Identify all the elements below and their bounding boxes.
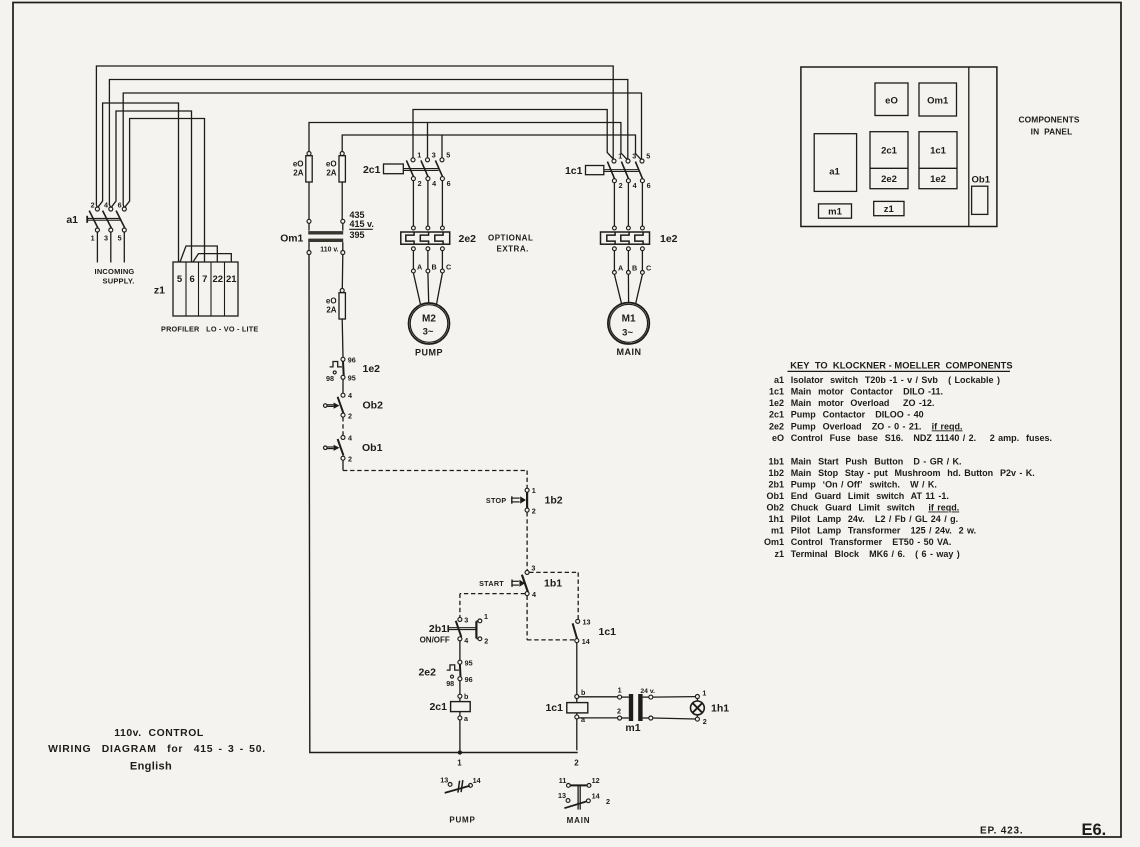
svg-text:13: 13	[583, 617, 591, 626]
motor M1 (main)	[608, 303, 649, 344]
svg-text:2: 2	[484, 637, 488, 646]
label PUMP	[415, 347, 443, 357]
fuse eO (left, 2A)	[293, 152, 312, 220]
label Ob2	[363, 399, 384, 411]
label 1h1	[711, 703, 729, 715]
svg-text:English: English	[130, 760, 172, 772]
svg-text:INCOMING: INCOMING	[95, 267, 135, 276]
svg-text:1c1: 1c1	[599, 626, 617, 638]
label 2e2 (aux)	[418, 666, 436, 678]
label 1c1 (power)	[565, 165, 583, 177]
dashed wire 1b1-4 to 1c1-14	[527, 596, 575, 640]
svg-text:1b2: 1b2	[545, 494, 563, 506]
svg-text:415 v.: 415 v.	[350, 219, 374, 229]
svg-text:b: b	[581, 688, 586, 697]
label 2 (main aux)	[606, 797, 610, 806]
svg-text:B: B	[432, 263, 437, 272]
overload relay 1e2	[601, 226, 650, 251]
svg-text:Ob2: Ob2	[766, 503, 784, 513]
svg-text:EP. 423.: EP. 423.	[980, 825, 1023, 836]
key entry 2b1	[768, 480, 936, 490]
svg-text:4: 4	[432, 179, 436, 188]
svg-text:1c1: 1c1	[769, 387, 784, 397]
label 1e2 (aux)	[363, 363, 381, 375]
wire to 2c1 coil	[459, 681, 461, 695]
svg-text:5: 5	[118, 234, 122, 243]
svg-text:1c1: 1c1	[565, 165, 583, 177]
key entry a1	[774, 375, 1000, 385]
svg-text:6: 6	[118, 200, 122, 209]
key entry 1e2	[769, 398, 934, 408]
svg-text:5: 5	[446, 150, 450, 159]
svg-text:3~: 3~	[622, 328, 633, 339]
svg-text:Main motor Contactor DILO: Main motor Contactor DILO -11.	[791, 387, 943, 397]
label PUMP (aux)	[449, 815, 475, 824]
svg-text:5: 5	[177, 274, 183, 285]
limit switch Ob2	[324, 391, 353, 420]
svg-text:1c1: 1c1	[545, 702, 563, 714]
svg-text:13: 13	[558, 791, 566, 800]
svg-text:2: 2	[703, 717, 707, 726]
wire Ob1-2 down	[342, 460, 344, 470]
svg-text:z1: z1	[774, 549, 784, 559]
svg-text:Ob1: Ob1	[972, 175, 991, 186]
svg-text:Pump Overload ZO - 0 - 21.: Pump Overload ZO - 0 - 21. if reqd.	[791, 421, 963, 431]
svg-text:1: 1	[417, 150, 421, 159]
svg-text:24 v.: 24 v.	[640, 688, 655, 695]
svg-text:Om1: Om1	[764, 537, 784, 547]
svg-text:Main motor Overload ZO -1: Main motor Overload ZO -12.	[791, 398, 935, 408]
svg-text:3: 3	[432, 150, 436, 159]
wire link 2c1-1 to 1c1-1	[413, 110, 613, 160]
wire link z1-6 to z1-21	[193, 254, 231, 262]
wires to motor M2	[413, 273, 442, 305]
svg-text:110 v.: 110 v.	[320, 246, 338, 253]
svg-text:a1: a1	[66, 214, 78, 226]
label z1	[154, 285, 165, 297]
svg-text:2: 2	[574, 759, 579, 768]
svg-text:5: 5	[646, 152, 650, 161]
svg-text:14: 14	[592, 792, 600, 801]
svg-text:1b1: 1b1	[544, 578, 562, 590]
label MAIN (aux)	[567, 816, 591, 825]
limit switch Ob1	[324, 433, 353, 463]
svg-text:1: 1	[532, 486, 536, 495]
svg-text:Main Stop Stay - put Mushro: Main Stop Stay - put Mushroom hd. Button…	[791, 468, 1035, 478]
svg-text:eO: eO	[293, 160, 304, 169]
label 1b1	[544, 578, 562, 590]
svg-text:2e2: 2e2	[418, 666, 436, 678]
label MAIN	[617, 347, 642, 357]
key entry 1b2	[768, 468, 1034, 478]
overload relay 2e2	[401, 226, 450, 251]
key entry 1c1	[769, 387, 943, 397]
svg-text:2c1: 2c1	[429, 701, 447, 713]
key entry 2c1	[769, 410, 924, 420]
svg-text:2e2: 2e2	[881, 174, 897, 185]
svg-text:2e2: 2e2	[769, 421, 784, 431]
svg-text:2: 2	[606, 797, 610, 806]
key entry 2e2	[769, 421, 963, 431]
svg-text:Control Fuse base S16. ND: Control Fuse base S16. NDZ 11140 / 2. 2 …	[791, 433, 1052, 443]
svg-text:4: 4	[633, 181, 637, 190]
svg-text:1: 1	[484, 612, 488, 621]
contactor 1c1 main contacts	[586, 152, 651, 190]
svg-text:4: 4	[532, 590, 536, 599]
svg-text:m1: m1	[828, 207, 842, 218]
svg-text:Om1: Om1	[280, 234, 303, 245]
wire 2c1-6 to 2e2	[441, 181, 443, 226]
svg-text:z1: z1	[884, 204, 895, 215]
pump on/off switch 2b1	[448, 612, 488, 646]
svg-text:M1: M1	[622, 314, 636, 325]
svg-text:MAIN: MAIN	[567, 816, 591, 825]
svg-text:COMPONENTS: COMPONENTS	[1018, 115, 1079, 125]
svg-text:Pump ‘On / Off’ switch. W: Pump ‘On / Off’ switch. W / K.	[791, 480, 937, 490]
svg-text:Chuck Guard Limit switch: Chuck Guard Limit switch if reqd.	[791, 503, 959, 513]
svg-text:1c1: 1c1	[930, 146, 947, 157]
svg-text:WIRING DIAGRAM for 415 - 3: WIRING DIAGRAM for 415 - 3 - 50.	[48, 744, 266, 755]
svg-text:m1: m1	[625, 722, 640, 734]
svg-text:1e2: 1e2	[363, 363, 381, 375]
svg-text:E6.: E6.	[1082, 821, 1107, 839]
svg-text:96: 96	[465, 675, 473, 684]
node A B C (main feeder)	[613, 251, 652, 275]
svg-text:96: 96	[348, 355, 356, 364]
label Om1	[280, 234, 303, 245]
svg-text:Main Start Push Button D: Main Start Push Button D - GR / K.	[791, 456, 962, 466]
label STOP	[486, 496, 507, 505]
svg-text:98: 98	[326, 374, 334, 383]
contactor coil 1c1	[567, 688, 588, 750]
dashed wire 1b1-3 to 1c1-13	[529, 572, 578, 619]
svg-text:3: 3	[531, 564, 535, 573]
svg-text:2A: 2A	[293, 169, 303, 178]
wire 1c1-6 to 1e2	[641, 183, 643, 226]
svg-text:eO: eO	[772, 433, 784, 443]
svg-text:2: 2	[348, 455, 352, 464]
label EP. 423.	[980, 825, 1023, 836]
svg-text:1: 1	[618, 685, 622, 694]
wire fuse eO-2 riser / link to 1c1-5	[342, 135, 641, 160]
svg-text:1b2: 1b2	[768, 468, 784, 478]
svg-text:1e2: 1e2	[769, 398, 784, 408]
svg-text:98: 98	[446, 679, 454, 688]
svg-text:1: 1	[91, 234, 95, 243]
junction node 1	[457, 750, 462, 767]
label START	[479, 579, 504, 588]
svg-text:START: START	[479, 579, 504, 588]
key entry Ob1	[766, 491, 948, 501]
svg-text:3~: 3~	[423, 327, 434, 338]
svg-text:6: 6	[447, 179, 451, 188]
contactor 2c1 main contacts	[384, 150, 451, 187]
dashed wire 1b2 to 1b1	[526, 512, 528, 570]
svg-text:4: 4	[348, 391, 352, 400]
svg-text:2A: 2A	[326, 306, 336, 315]
label 2e2	[459, 233, 477, 245]
svg-text:ON/OFF: ON/OFF	[420, 635, 450, 644]
wire 1c1-4 to 1e2	[627, 183, 629, 226]
dashed wire Ob2 to Ob1	[342, 417, 344, 435]
svg-text:2c1: 2c1	[881, 146, 898, 157]
svg-text:7: 7	[202, 274, 207, 285]
svg-text:4: 4	[104, 200, 108, 209]
svg-text:1: 1	[702, 688, 706, 697]
wire stubs into a1 top terminals	[96, 205, 124, 207]
overload aux contact 1e2 96-95	[326, 355, 356, 383]
key entry z1	[774, 549, 959, 559]
isolator switch a1	[87, 200, 126, 262]
wire coil-a to m1-2	[579, 717, 618, 719]
svg-text:6: 6	[190, 274, 195, 285]
wire 2c1-4 to 2e2	[427, 181, 429, 226]
sheet number E6	[1082, 821, 1107, 839]
svg-text:2e2: 2e2	[459, 233, 477, 245]
svg-text:4: 4	[464, 636, 468, 645]
svg-text:21: 21	[226, 274, 237, 285]
svg-text:1e2: 1e2	[660, 233, 678, 245]
terminal block z1	[173, 262, 238, 316]
main interlock contact 11-12-13-14	[558, 776, 600, 810]
svg-text:Ob2: Ob2	[363, 399, 384, 411]
svg-text:95: 95	[348, 373, 356, 382]
wire link z1-5 to z1-22	[180, 246, 217, 262]
svg-text:a1: a1	[829, 167, 840, 178]
label 1b2	[545, 494, 563, 506]
wire 1c1-2 to 1e2	[613, 183, 615, 226]
svg-text:IN PANEL: IN PANEL	[1031, 126, 1073, 136]
label 2c1 (coil)	[429, 701, 447, 713]
svg-text:z1: z1	[154, 285, 165, 297]
svg-text:22: 22	[213, 274, 224, 285]
wire drop to 2c1-3	[427, 123, 429, 158]
wire 1c1-14 to coil	[576, 643, 578, 695]
svg-text:A: A	[417, 263, 422, 272]
key entry Ob2	[766, 503, 959, 513]
svg-text:STOP: STOP	[486, 496, 507, 505]
svg-text:Terminal Block MK6 / 6. (: Terminal Block MK6 / 6. ( 6 - way )	[791, 549, 960, 559]
wire coil-b to m1-1	[579, 696, 618, 698]
svg-text:1: 1	[618, 152, 622, 161]
svg-text:Pilot Lamp Transformer 125: Pilot Lamp Transformer 125 / 24v. 2 w.	[791, 526, 976, 536]
pilot lamp 1h1	[691, 688, 707, 726]
labels 435 / 415v / 395 tappings	[349, 210, 374, 240]
label OPTIONAL EXTRA	[488, 234, 533, 254]
svg-text:2: 2	[617, 706, 621, 715]
svg-text:eO: eO	[885, 96, 898, 107]
svg-text:Control Transformer ET50 -: Control Transformer ET50 - 50 VA.	[791, 537, 952, 547]
svg-text:2: 2	[91, 200, 95, 209]
dashed wire into 1b2	[526, 471, 528, 489]
svg-text:1e2: 1e2	[930, 174, 946, 185]
key entry Om1	[764, 537, 951, 547]
svg-text:a1: a1	[774, 375, 784, 385]
svg-text:MAIN: MAIN	[617, 347, 642, 357]
svg-text:C: C	[446, 263, 451, 272]
wire drop to 2c1-5	[441, 135, 443, 158]
svg-text:2: 2	[619, 181, 623, 190]
label COMPONENTS IN PANEL	[1018, 115, 1079, 137]
node 2 label	[574, 759, 579, 768]
svg-text:3: 3	[464, 615, 468, 624]
label ON/OFF	[420, 635, 450, 644]
svg-text:3: 3	[632, 152, 636, 161]
motor M2 (pump)	[409, 303, 450, 344]
label PROFILER LO-VO-LITE	[161, 325, 258, 334]
dashed wire to stop button	[343, 470, 527, 472]
pilot lamp transformer m1	[617, 685, 653, 721]
node A B C (pump feeder)	[412, 251, 452, 273]
svg-text:6: 6	[647, 181, 651, 190]
svg-text:95: 95	[465, 658, 473, 667]
svg-text:EXTRA.: EXTRA.	[497, 245, 529, 254]
svg-text:M2: M2	[422, 314, 436, 325]
wire bus L1 (a1-2 to 1c1-1)	[96, 66, 613, 205]
label Ob1	[362, 442, 383, 454]
dashed wire 1b1-4 to 2b1-3	[460, 594, 525, 618]
overload aux contact 2e2 95-96	[446, 658, 472, 688]
wire fuse eO-1 riser / link to 1c1-3	[309, 123, 627, 160]
wire a1-4 to z1-6	[111, 111, 191, 262]
label 2b1	[429, 623, 447, 635]
wire a1-2 to z1-5	[98, 103, 179, 262]
fuse eO (control, 2A)	[326, 255, 345, 358]
svg-text:m1: m1	[771, 526, 784, 536]
wires to motor M1	[614, 274, 642, 304]
svg-text:2b1: 2b1	[768, 480, 784, 490]
key entry 1b1	[768, 456, 961, 466]
svg-text:eO: eO	[326, 160, 337, 169]
svg-text:14: 14	[582, 637, 590, 646]
svg-text:End Guard Limit switch AT: End Guard Limit switch AT 11 -1.	[791, 491, 949, 501]
svg-text:B: B	[632, 263, 637, 272]
svg-text:Pump Contactor DILOO - 40: Pump Contactor DILOO - 40	[791, 410, 924, 420]
svg-text:110v. CONTROL: 110v. CONTROL	[114, 728, 204, 739]
svg-text:Isolator switch T20b -1 - v: Isolator switch T20b -1 - v / Svb ( Lock…	[791, 375, 1000, 385]
svg-text:1h1: 1h1	[711, 703, 729, 715]
contactor coil 2c1	[451, 692, 471, 750]
svg-text:Om1: Om1	[927, 96, 949, 107]
key table title	[788, 360, 1013, 371]
wire control rail (110v common) and bottom rail	[309, 255, 578, 753]
svg-text:b: b	[464, 692, 469, 701]
wire bus L3 (a1-6 to 1c1-5)	[123, 93, 641, 205]
svg-text:3: 3	[104, 234, 108, 243]
svg-text:13: 13	[440, 775, 448, 784]
auxiliary contact 1c1 13-14	[573, 617, 591, 646]
svg-text:1: 1	[457, 759, 462, 768]
wire m1 to lamp (bottom)	[653, 718, 696, 719]
svg-text:2: 2	[418, 179, 422, 188]
label 110v secondary	[320, 246, 338, 253]
stop push button 1b2	[512, 486, 536, 515]
label m1	[625, 722, 640, 734]
wire a1-6 to z1-7	[125, 119, 205, 262]
svg-text:KEY TO KLOCKNER - MOELLER C: KEY TO KLOCKNER - MOELLER COMPONENTS	[790, 360, 1012, 370]
svg-text:4: 4	[348, 433, 352, 442]
svg-text:1h1: 1h1	[768, 514, 784, 524]
pump interlock contact 13-14	[440, 775, 480, 793]
svg-text:2: 2	[532, 506, 536, 515]
svg-text:11: 11	[559, 776, 567, 785]
svg-text:2b1: 2b1	[429, 623, 447, 635]
wire 95 to Ob2	[342, 379, 344, 393]
wire bus L2 (a1-4 to 1c1-3)	[109, 80, 627, 206]
svg-text:PUMP: PUMP	[415, 347, 443, 357]
label 24v	[640, 688, 655, 695]
key entry eO	[772, 433, 1052, 443]
wire m1 to lamp (top)	[653, 696, 696, 699]
svg-text:C: C	[646, 263, 651, 272]
key entry m1	[771, 526, 976, 536]
control transformer Om1	[307, 219, 345, 254]
wire 2b1-4 to 2e2 aux	[459, 641, 461, 660]
svg-text:PUMP: PUMP	[449, 815, 475, 824]
label 1c1 (coil)	[545, 702, 563, 714]
svg-text:2A: 2A	[326, 169, 336, 178]
start push button 1b1	[512, 564, 536, 600]
svg-text:SUPPLY.: SUPPLY.	[103, 277, 135, 286]
wire 2c1-2 to 2e2	[412, 181, 414, 226]
label INCOMING SUPPLY	[95, 267, 135, 286]
label a1	[66, 214, 78, 226]
svg-text:OPTIONAL: OPTIONAL	[488, 234, 533, 243]
svg-text:1b1: 1b1	[768, 456, 784, 466]
key entry 1h1	[768, 514, 958, 524]
svg-text:Ob1: Ob1	[362, 442, 383, 454]
svg-text:395: 395	[350, 230, 365, 240]
svg-text:12: 12	[592, 776, 600, 785]
label 1e2 (power)	[660, 233, 678, 245]
svg-text:2: 2	[348, 411, 352, 420]
svg-text:Ob1: Ob1	[766, 491, 784, 501]
fuse eO (right, 2A)	[326, 152, 345, 220]
svg-text:PROFILER LO - VO - LITE: PROFILER LO - VO - LITE	[161, 325, 258, 334]
svg-text:2c1: 2c1	[769, 410, 784, 420]
title 110v CONTROL WIRING DIAGRAM	[48, 728, 266, 773]
svg-text:A: A	[618, 263, 623, 272]
svg-text:Pilot Lamp 24v. L2 / Fb /: Pilot Lamp 24v. L2 / Fb / GL 24 / g.	[791, 514, 958, 524]
svg-text:eO: eO	[326, 297, 337, 306]
svg-text:2c1: 2c1	[363, 164, 381, 176]
svg-text:14: 14	[473, 776, 481, 785]
label 2c1	[363, 164, 381, 176]
label 1c1 (aux)	[599, 626, 617, 638]
panel layout box	[801, 67, 997, 227]
